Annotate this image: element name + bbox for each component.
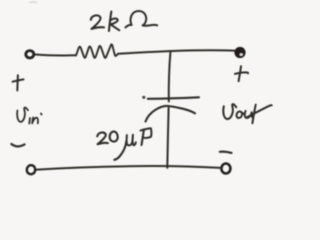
label 2kOhm : digit 2 [91, 15, 104, 29]
minus sign left [11, 144, 24, 146]
terminal bottom-right [221, 164, 230, 174]
smudge top [30, 1, 37, 3]
plus sign left [16, 75, 19, 90]
label v_out : u [245, 111, 253, 118]
label v_out : o [237, 111, 244, 118]
label 2kOhm : Omega [126, 11, 158, 27]
label 20uF : mu [114, 141, 126, 160]
label 2kOhm : letter k [109, 12, 111, 32]
label v_in : n [32, 118, 38, 124]
capacitor C1 : top plate [148, 97, 199, 99]
terminal top-left [26, 51, 34, 58]
minus sign right [220, 152, 232, 153]
resistor R1 [76, 44, 118, 58]
terminal top-right [234, 47, 245, 58]
label v_in : dot [40, 114, 43, 115]
label v_in : i [28, 118, 31, 124]
capacitor C1 : top lead [169, 51, 171, 101]
label v_in : script v [17, 108, 28, 122]
wire top-left [35, 54, 76, 57]
capacitor C1 : bottom plate (arc) [146, 106, 196, 122]
wire top-right [118, 50, 235, 53]
capacitor C1 : bottom lead [167, 108, 168, 168]
capacitor C1 : dot left of plate [142, 96, 145, 99]
label 20uF : digit 2 [97, 132, 108, 144]
label v_out : t [252, 105, 255, 124]
plus sign right [239, 66, 241, 81]
label 20uF : digit 0 [110, 131, 118, 141]
label v_out : script v [223, 104, 236, 119]
label 20uF : F [142, 130, 145, 145]
wire bottom [35, 166, 221, 170]
terminal bottom-left [27, 165, 35, 174]
